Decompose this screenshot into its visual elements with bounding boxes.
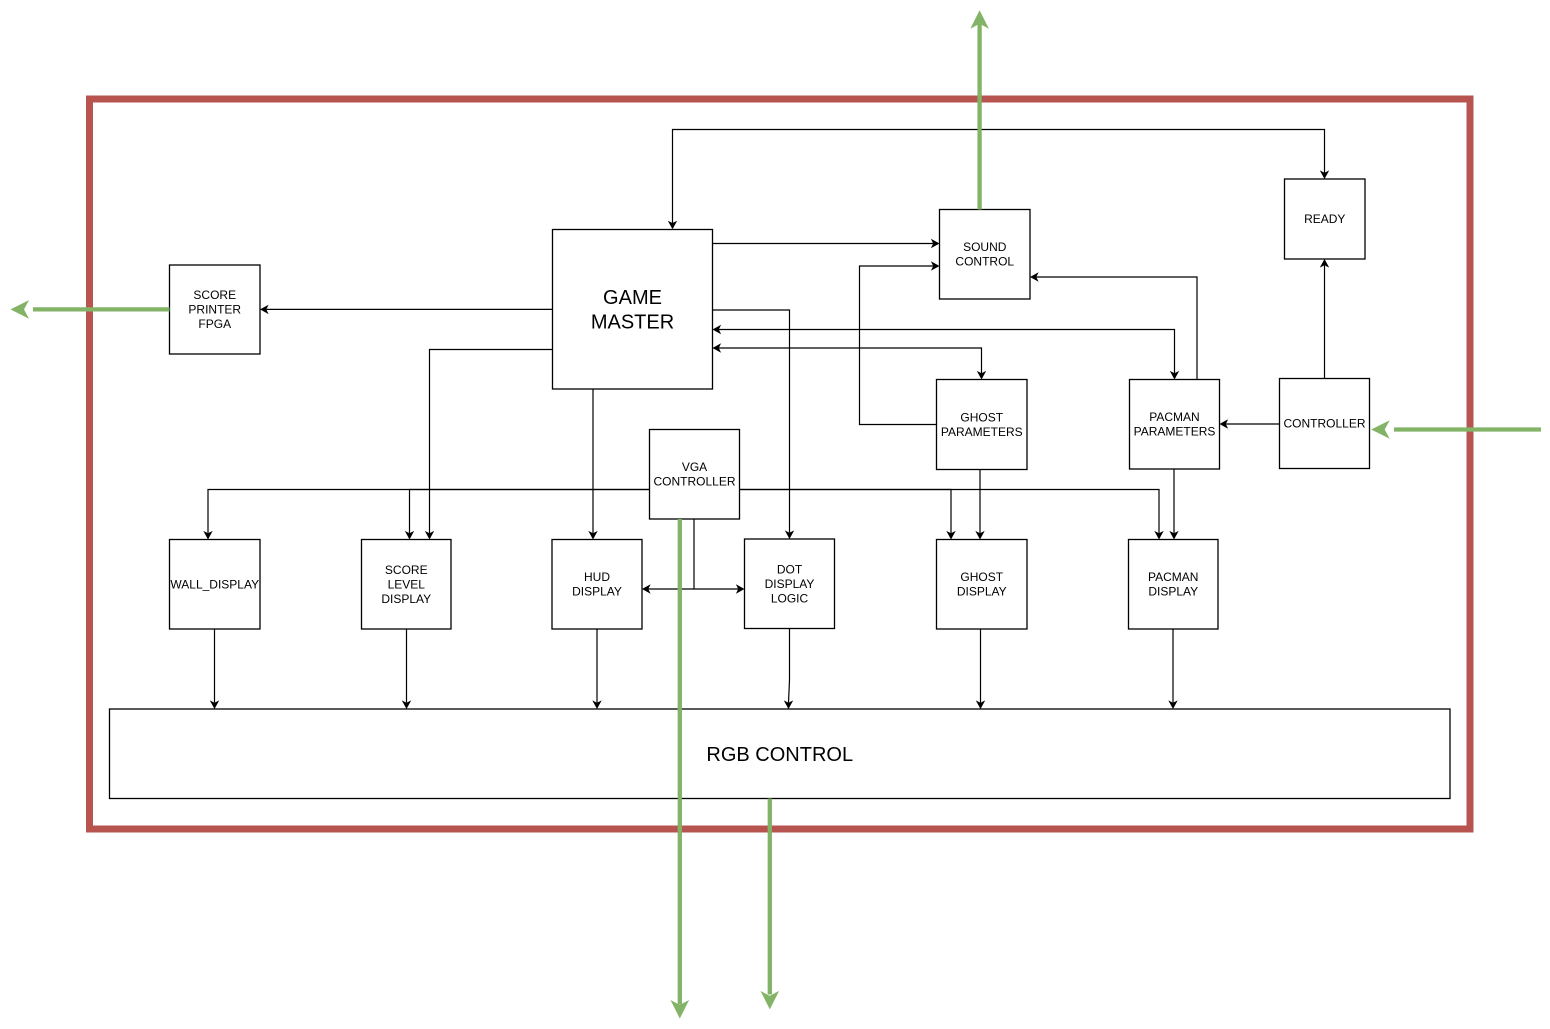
wire PACMAN DISPLAY to RGB CONTROL bbox=[1168, 630, 1177, 710]
block SCORE LEVEL DISPLAY bbox=[362, 540, 452, 630]
wire GHOST DISPLAY to RGB CONTROL bbox=[976, 630, 985, 710]
block GAME MASTER bbox=[553, 230, 713, 390]
svg-text:SOUNDCONTROL: SOUNDCONTROL bbox=[955, 240, 1014, 269]
svg-text:WALL_DISPLAY: WALL_DISPLAY bbox=[170, 577, 259, 591]
wire GAME MASTER to SCORE PRINTER FPGA bbox=[260, 305, 553, 314]
wire HUD DISPLAY to DOT DISPLAY LOGIC (bidirectional) bbox=[642, 584, 745, 593]
external signal arrow VGA CONTROLLER video output (bottom) bbox=[671, 519, 690, 1019]
wire PACMAN PARAMETERS to SOUND CONTROL bbox=[1030, 272, 1197, 379]
wire GAME MASTER to GHOST PARAMETERS (bidirectional) bbox=[713, 343, 987, 379]
block SOUND CONTROL bbox=[940, 210, 1031, 300]
svg-text:PACMANDISPLAY: PACMANDISPLAY bbox=[1148, 570, 1198, 599]
external signal arrow SOUND CONTROL audio output (top) bbox=[970, 10, 989, 209]
block CONTROLLER bbox=[1280, 379, 1370, 469]
block DOT DISPLAY LOGIC bbox=[745, 539, 835, 629]
svg-text:CONTROLLER: CONTROLLER bbox=[1283, 417, 1365, 431]
wire GAME MASTER to SCORE LEVEL DISPLAY bbox=[425, 350, 553, 540]
block RGB CONTROL bbox=[110, 709, 1451, 799]
wire SCORE LEVEL DISPLAY to RGB CONTROL bbox=[402, 629, 411, 709]
block PACMAN PARAMETERS bbox=[1130, 380, 1220, 470]
wire CONTROLLER to PACMAN PARAMETERS bbox=[1220, 419, 1280, 428]
wire GAME MASTER to HUD DISPLAY bbox=[588, 389, 597, 540]
block GHOST PARAMETERS bbox=[937, 380, 1028, 470]
block SCORE PRINTER FPGA bbox=[170, 265, 261, 354]
wire HUD DISPLAY to RGB CONTROL bbox=[592, 629, 601, 709]
wire GAME MASTER to SOUND CONTROL bbox=[713, 239, 940, 248]
svg-text:RGB CONTROL: RGB CONTROL bbox=[706, 744, 853, 766]
wire GAME MASTER to DOT DISPLAY LOGIC bbox=[713, 310, 795, 539]
wire DOT DISPLAY LOGIC to RGB CONTROL bbox=[784, 629, 793, 710]
wire WALL_DISPLAY to RGB CONTROL bbox=[210, 629, 219, 709]
wire VGA CONTROLLER to SCORE LEVEL DISPLAY bbox=[405, 490, 650, 540]
wire GHOST PARAMETERS to GHOST DISPLAY bbox=[975, 470, 984, 540]
external signal arrow CONTROLLER input (right) bbox=[1371, 420, 1541, 439]
external signal arrow SCORE PRINTER FPGA output (left) bbox=[11, 300, 170, 319]
wire GAME MASTER to PACMAN PARAMETERS (bidirectional) bbox=[713, 325, 1180, 380]
block READY bbox=[1285, 179, 1366, 259]
wire VGA CONTROLLER to GHOST DISPLAY bbox=[740, 490, 956, 540]
block PACMAN DISPLAY bbox=[1129, 540, 1219, 630]
wire PACMAN PARAMETERS to PACMAN DISPLAY bbox=[1169, 469, 1178, 540]
block GHOST DISPLAY bbox=[937, 540, 1028, 630]
svg-text:SCORELEVELDISPLAY: SCORELEVELDISPLAY bbox=[381, 563, 431, 606]
block WALL_DISPLAY bbox=[170, 540, 261, 630]
svg-text:READY: READY bbox=[1304, 212, 1345, 226]
wire VGA CONTROLLER to PACMAN DISPLAY bbox=[740, 490, 1164, 540]
block VGA CONTROLLER bbox=[650, 430, 740, 520]
wire VGA CONTROLLER to WALL_DISPLAY bbox=[203, 490, 649, 540]
wire VGA CONTROLLER to HUD DISPLAY and DOT DISPLAY LOGIC (bidirectional) bbox=[693, 519, 695, 589]
FPGA boundary frame bbox=[90, 99, 1471, 829]
wire GAME MASTER to READY (bidirectional) bbox=[668, 130, 1329, 230]
wire CONTROLLER to READY bbox=[1320, 259, 1329, 379]
svg-text:GHOSTDISPLAY: GHOSTDISPLAY bbox=[957, 570, 1007, 599]
wire GHOST PARAMETERS to SOUND CONTROL bbox=[860, 261, 940, 424]
external signal arrow RGB CONTROL output (bottom) bbox=[761, 799, 780, 1010]
block HUD DISPLAY bbox=[552, 540, 642, 630]
